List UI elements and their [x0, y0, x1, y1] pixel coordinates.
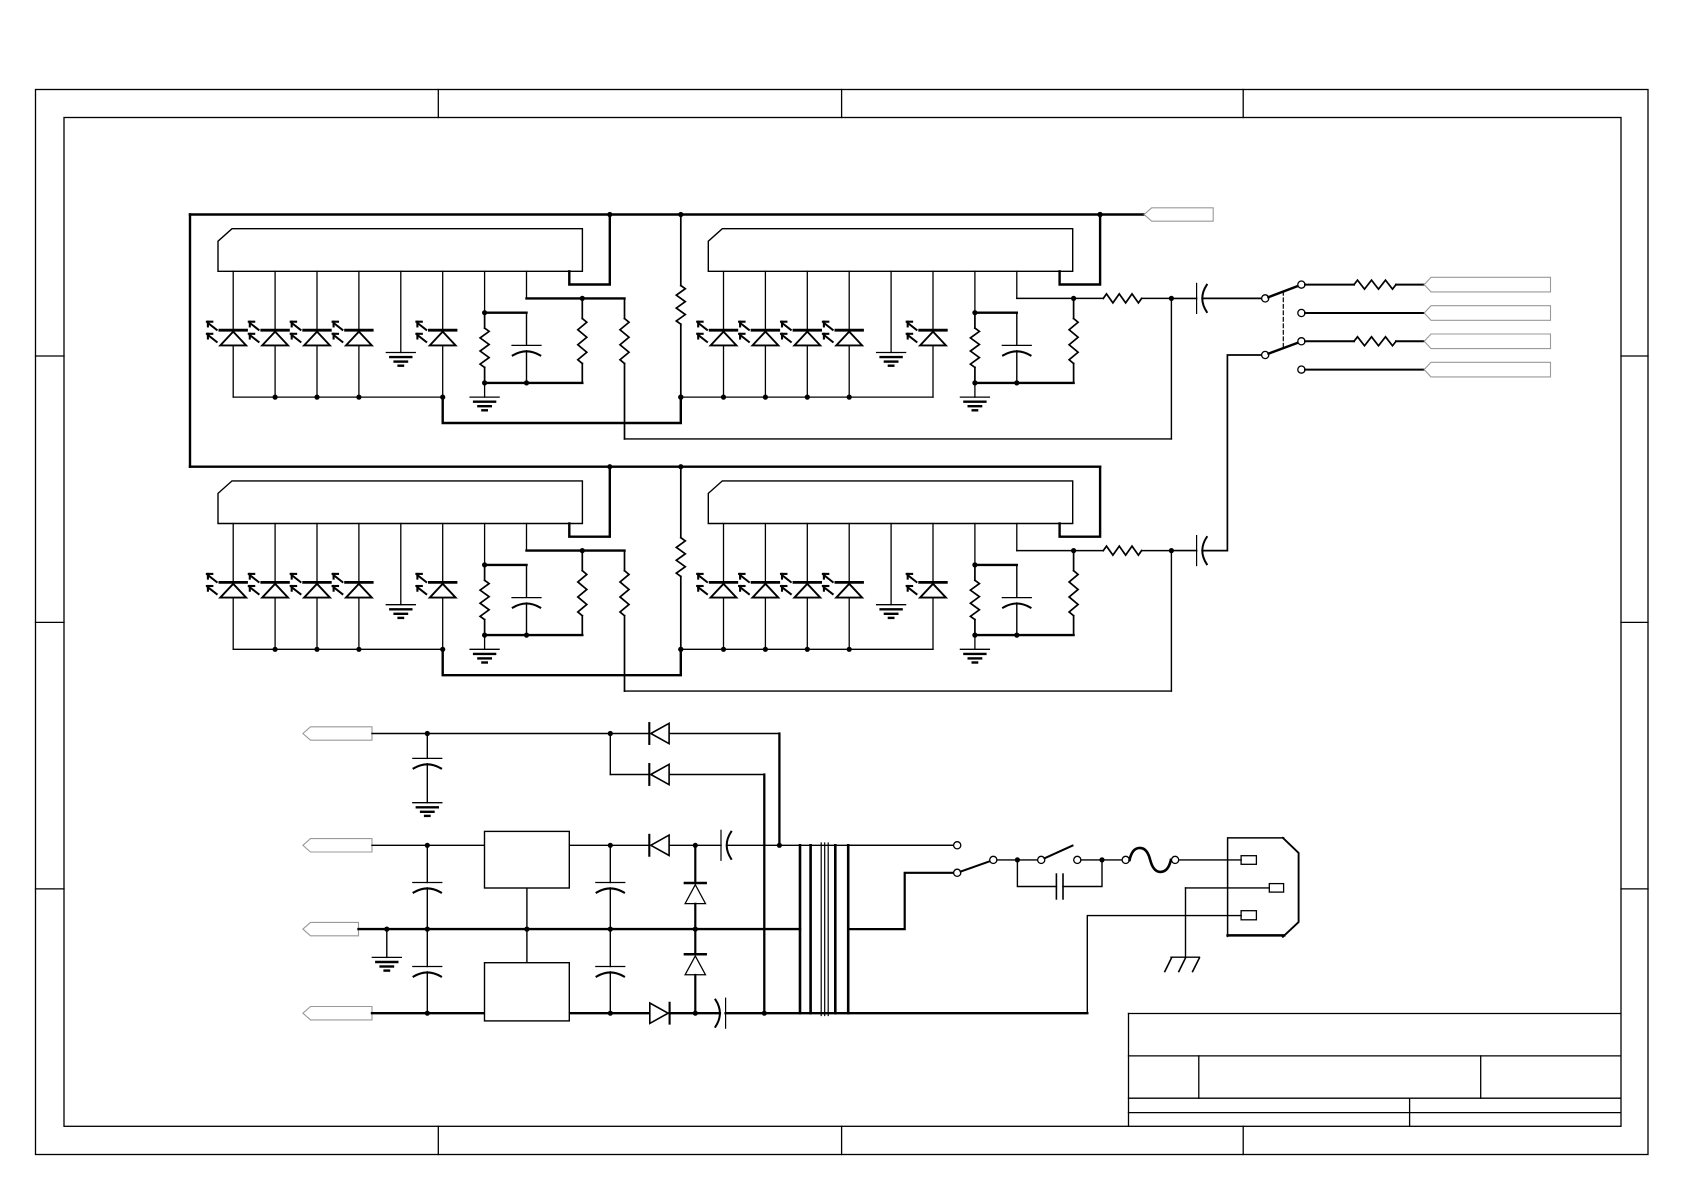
- wire switch to fuse: [1081, 859, 1122, 861]
- wire photodiode D215 anode: [442, 598, 444, 650]
- capacitor C11 (B-C filter): [426, 845, 428, 882]
- photodiode D125: [920, 329, 947, 332]
- ground at pin5 block 2 row1: [877, 352, 906, 354]
- title block outline: [1129, 1013, 1621, 1015]
- wire photodiode D122 anode: [764, 346, 766, 398]
- wire pin5 U2B to ground: [890, 524, 892, 605]
- wire C2out to switch pole2: [1202, 355, 1261, 551]
- resistor R21b (shunt): [581, 551, 583, 571]
- net label flag supply V1: [303, 727, 372, 740]
- wire pin2 U2A: [274, 524, 276, 582]
- junction supply step block2 row1: [1098, 212, 1103, 217]
- wire pin4 U2A: [358, 524, 360, 582]
- chassis ground: [1171, 956, 1199, 958]
- photodiode D214: [346, 581, 373, 584]
- capacitor C14 (C-D filter 2): [609, 929, 611, 966]
- wire throw3 to R32: [1305, 340, 1354, 342]
- junction dots bus block1 row1: [273, 395, 278, 400]
- junction rail B cap column: [425, 843, 430, 848]
- photodiode D111: [220, 329, 247, 332]
- transformer T1 core: [820, 843, 822, 1016]
- resistor R12b (shunt): [1073, 298, 1075, 318]
- transformer T1 primary winding: [834, 845, 837, 1013]
- voltage selector lever: [961, 861, 991, 871]
- wire photodiode D115 anode: [442, 346, 444, 398]
- junction R2m top: [678, 464, 683, 469]
- wire supply rail C (0V): [359, 928, 801, 930]
- junction dots bus block1 row2: [273, 647, 278, 652]
- junction sum node row1: [1169, 296, 1174, 301]
- wire RC common to ground block1 row2: [485, 634, 583, 636]
- photodiode D211: [220, 581, 247, 584]
- junction snubber cap left: [1015, 857, 1020, 862]
- switch S1 pole1 lever: [1268, 286, 1298, 297]
- title block row line 2: [1129, 1097, 1621, 1099]
- junction rail B diode column: [608, 843, 613, 848]
- net label flag supply 0V: [303, 922, 359, 935]
- ground RC network block1 row2: [484, 635, 486, 649]
- wire photodiode D112 anode: [274, 346, 276, 398]
- capacitor C2out (output coupling): [1171, 550, 1196, 552]
- wire D11 branch: [609, 734, 611, 775]
- wire D11 anode to transformer bottom: [670, 774, 764, 776]
- junction rail B transformer tap: [777, 843, 782, 848]
- AC inlet neutral pin: [1241, 911, 1256, 920]
- wire IC supply step block2 row1: [1060, 215, 1101, 285]
- wire V+ link between rows: [189, 215, 191, 467]
- wire pin8 block2 row1: [1016, 271, 1018, 298]
- wire inlet earth pin to chassis: [1186, 887, 1270, 889]
- wire pin7 block1 row2: [484, 524, 486, 565]
- junction rail D cap column: [425, 1011, 430, 1016]
- wire primary top to selector: [848, 844, 953, 846]
- junction dots bus block2 row2: [678, 647, 683, 652]
- resistor R21a (pin7 load): [484, 565, 486, 580]
- photodiode D212: [262, 581, 289, 584]
- wire R21c to sum node row2: [625, 690, 1172, 692]
- junction pin7 block2 row2: [972, 562, 977, 567]
- power switch S2 lever (open): [1045, 846, 1073, 859]
- photodiode D224: [836, 581, 863, 584]
- connector flag output 1: [1424, 277, 1550, 292]
- photodiode D221: [710, 581, 737, 584]
- wire pin8 output node block2 row2: [1017, 550, 1104, 552]
- junction supply step block1 row1: [607, 212, 612, 217]
- switch S1 throw terminal 1: [1298, 281, 1305, 288]
- wire pin2 U2B: [764, 524, 766, 582]
- capacitor C10 (rail A filter): [426, 734, 428, 759]
- junction pin7 block1 row1: [482, 310, 487, 315]
- net label flag supply V2+: [303, 839, 372, 852]
- wire photodiode D214 anode: [358, 598, 360, 650]
- diode D15 (clamp C-D): [694, 929, 696, 954]
- title block divider 2: [1480, 1056, 1482, 1098]
- photodiode D225: [920, 581, 947, 584]
- switch S1 gang link (dashed): [1282, 292, 1284, 348]
- photodiode D222: [752, 581, 779, 584]
- ground at pin5 block 1 row1: [386, 352, 415, 354]
- switch S1 pole1 terminal: [1262, 295, 1269, 302]
- IC U1B sensor array block 2: [708, 229, 1072, 272]
- wire pin6 U1A: [442, 271, 444, 329]
- regulator U5 (positive): [526, 888, 528, 929]
- title block row line 1: [1129, 1055, 1621, 1057]
- junction rail D transformer tap: [762, 1011, 767, 1016]
- ground RC network block2 row2: [974, 635, 976, 649]
- junction R21b top: [580, 548, 585, 553]
- wire pin5 U2A to ground: [400, 524, 402, 605]
- wire R22c to sum node: [1142, 550, 1172, 552]
- ground rail A filter: [413, 802, 442, 804]
- transformer T1 secondary winding: [799, 845, 802, 1013]
- junction pin7 block1 row2: [482, 562, 487, 567]
- resistor R31 (output series): [1354, 280, 1396, 289]
- wire pin7 node to cap block1 row1: [485, 312, 527, 314]
- wire pin5 U1A to ground: [400, 271, 402, 352]
- wire pin8 block1 row2: [526, 524, 528, 551]
- wire throw1 to R31: [1305, 284, 1354, 286]
- wire pin8 block2 row2: [1016, 524, 1018, 551]
- photodiode D223: [794, 581, 821, 584]
- ground rail C: [386, 929, 388, 957]
- ground at pin5 block 2 row2: [877, 604, 906, 606]
- diode D14 (clamp B-C): [694, 845, 696, 883]
- wire pin7 block2 row2: [974, 524, 976, 565]
- wire cathode bus block2 row2: [681, 648, 933, 650]
- capacitor C11 (pin7 filter): [526, 313, 528, 345]
- resistor R22c (series to sum node): [1103, 546, 1141, 555]
- wire rail D cap to transformer: [726, 1012, 1088, 1014]
- photodiode D122: [752, 329, 779, 332]
- wire supply rail B: [372, 844, 649, 846]
- title block divider 1: [1198, 1056, 1200, 1098]
- capacitor C15 (rail B coupling): [720, 830, 722, 860]
- junction dots RC bottom block1 row1: [482, 380, 487, 385]
- border zone ticks top: [437, 90, 439, 118]
- photodiode D112: [262, 329, 289, 332]
- wire photodiode D114 anode: [358, 346, 360, 398]
- IC U1A sensor array block 1: [218, 229, 582, 272]
- border zone ticks right: [1621, 355, 1648, 357]
- wire photodiode D211 anode: [232, 598, 234, 650]
- wire photodiode D113 anode: [316, 346, 318, 398]
- wire cathode bus block1 row1: [233, 396, 443, 398]
- capacitor C1out (output coupling): [1171, 297, 1196, 299]
- ground RC network block1 row1: [484, 383, 486, 397]
- photodiode D123: [794, 329, 821, 332]
- regulator U6 (negative): [526, 929, 528, 963]
- wire V+ rail row1: [190, 213, 1100, 215]
- wire pin1 U2A: [232, 524, 234, 582]
- junction dots RC bottom block2 row1: [972, 380, 977, 385]
- resistor R2m (bus pull-up): [680, 467, 682, 538]
- voltage selector common terminal: [990, 856, 997, 863]
- wire pin6 U2B: [932, 524, 934, 582]
- wire photodiode D121 anode: [723, 346, 725, 398]
- diode D11 (rectifier): [648, 764, 650, 785]
- switch S1 throw terminal 4: [1298, 366, 1305, 373]
- wire throw2 to connector flag 2: [1305, 312, 1424, 314]
- capacitor C17 (snubber across switch): [1017, 860, 1056, 887]
- wire rail B cap to transformer: [727, 844, 954, 846]
- wire pin3 U2B: [806, 524, 808, 582]
- wire primary tap: [848, 873, 953, 929]
- wire pin5 U1B to ground: [890, 271, 892, 352]
- wire photodiode D123 anode: [806, 346, 808, 398]
- wire IC supply step block2 row2: [1060, 467, 1101, 537]
- wire V+ rail row2: [190, 466, 1100, 468]
- junction rail A diode branch: [608, 731, 613, 736]
- resistor R22a (pin7 load): [974, 565, 976, 580]
- wire photodiode D125 anode: [932, 346, 934, 398]
- junction supply step block1 row2: [607, 464, 612, 469]
- wire rail B after diode: [670, 844, 721, 846]
- fuse F1: [1130, 848, 1171, 872]
- diode D12 (rectifier): [648, 835, 650, 856]
- capacitor C13 (B-C filter 2): [609, 845, 611, 882]
- capacitor C16 (rail D coupling): [725, 998, 727, 1028]
- wire photodiode D111 anode: [232, 346, 234, 398]
- wire pin8 output node block1 row2: [527, 549, 625, 551]
- wire pin7 node to cap block2 row2: [975, 564, 1017, 566]
- AC inlet J5 housing: [1228, 838, 1284, 937]
- wire V+ rail to net flag: [1100, 213, 1144, 215]
- junction R12b top: [1071, 296, 1076, 301]
- diode D10 (rectifier): [648, 723, 650, 744]
- wire IC supply step block1 row1: [569, 215, 610, 285]
- connector flag output 2: [1424, 306, 1550, 321]
- AC inlet live pin: [1241, 856, 1256, 865]
- wire RC common to ground block1 row1: [485, 382, 583, 384]
- wire pin4 U1B: [848, 271, 850, 329]
- power switch S2 terminal A: [1038, 856, 1045, 863]
- capacitor C22 (pin7 filter): [1016, 565, 1018, 597]
- junction rail C zener column: [693, 927, 698, 932]
- wire pin4 U1A: [358, 271, 360, 329]
- wire pin6 U2A: [442, 524, 444, 582]
- switch S1 throw terminal 3: [1298, 338, 1305, 345]
- border zone ticks left: [36, 355, 65, 357]
- wire pin7 block2 row1: [974, 271, 976, 312]
- capacitor C12 (C-D filter): [426, 929, 428, 966]
- photodiode D113: [304, 329, 331, 332]
- ground at pin5 block 1 row2: [386, 604, 415, 606]
- junction R2m bottom: [678, 647, 683, 652]
- switch S1 throw terminal 2: [1298, 309, 1305, 316]
- IC U2A sensor array block 1: [218, 481, 582, 524]
- wire R11c to sum node row1: [625, 438, 1172, 440]
- photodiode D124: [836, 329, 863, 332]
- junction dots bus block2 row1: [678, 395, 683, 400]
- photodiode D115: [429, 329, 456, 332]
- junction pin7 block2 row1: [972, 310, 977, 315]
- wire selector to power switch: [997, 859, 1038, 861]
- wire bus link row2: [443, 649, 681, 675]
- wire pin8 output node block2 row1: [1017, 297, 1104, 299]
- junction R1m bottom: [678, 395, 683, 400]
- wire throw4 to connector flag 4: [1305, 369, 1424, 371]
- wire photodiode D212 anode: [274, 598, 276, 650]
- fuse F1 terminal right: [1172, 856, 1179, 863]
- border inner frame: [64, 118, 1621, 1127]
- wire cathode bus block1 row2: [233, 648, 443, 650]
- junction sum node row2: [1169, 548, 1174, 553]
- wire photodiode D224 anode: [848, 598, 850, 650]
- wire photodiode D213 anode: [316, 598, 318, 650]
- wire rail D after diode: [670, 1012, 720, 1014]
- wire fuse to inlet live pin: [1179, 859, 1241, 861]
- resistor R1m (bus pull-up): [680, 215, 682, 286]
- junction R22b top: [1071, 548, 1076, 553]
- junction rail C cap column 1: [425, 927, 430, 932]
- junction rail A cap: [425, 731, 430, 736]
- wire supply rail D: [372, 1012, 649, 1014]
- AC inlet earth pin: [1269, 884, 1283, 893]
- wire photodiode D223 anode: [806, 598, 808, 650]
- junction rail B zener column: [693, 843, 698, 848]
- wire photodiode D222 anode: [764, 598, 766, 650]
- net label flag V+ row1: [1144, 208, 1213, 221]
- power switch S2 terminal B: [1074, 856, 1081, 863]
- wire C1out to switch pole1: [1202, 297, 1261, 299]
- wire cathode bus block2 row1: [681, 396, 933, 398]
- diode D13 (rectifier): [669, 1003, 671, 1024]
- junction rail D diode column: [608, 1011, 613, 1016]
- connector flag output 4: [1424, 362, 1550, 377]
- switch S1 pole2 terminal: [1262, 351, 1269, 358]
- fuse F1 terminal left: [1122, 856, 1129, 863]
- wire D10 anode to transformer top: [670, 733, 779, 735]
- photodiode D215: [429, 581, 456, 584]
- resistor R22b (shunt): [1073, 551, 1075, 571]
- junction rail C cap column 2: [608, 927, 613, 932]
- resistor R32 (output series): [1354, 337, 1396, 346]
- wire pin7 block1 row1: [484, 271, 486, 312]
- wire pin2 U1B: [764, 271, 766, 329]
- switch S1 pole2 lever: [1269, 343, 1299, 354]
- photodiode D213: [304, 581, 331, 584]
- wire rail D to inlet neutral pin: [1087, 916, 1241, 1014]
- wire photodiode D225 anode: [932, 598, 934, 650]
- junction R11b top: [580, 296, 585, 301]
- wire pin8 block1 row1: [526, 271, 528, 298]
- wire pin6 U1B: [932, 271, 934, 329]
- wire R12c to sum node: [1142, 297, 1172, 299]
- voltage selector terminal tap: [954, 869, 961, 876]
- junction rail D zener column: [693, 1011, 698, 1016]
- capacitor C12 (pin7 filter): [1016, 313, 1018, 345]
- wire pin3 U2A: [316, 524, 318, 582]
- wire RC common to ground block2 row2: [975, 634, 1074, 636]
- wire photodiode D221 anode: [723, 598, 725, 650]
- ground RC network block2 row1: [974, 383, 976, 397]
- photodiode D114: [346, 329, 373, 332]
- resistor R11a (pin7 load): [484, 313, 486, 328]
- wire pin7 node to cap block1 row2: [485, 564, 527, 566]
- junction V+ rail to flag row1: [1098, 212, 1103, 217]
- junction rail C ground stem: [384, 927, 389, 932]
- wire pin1 U1A: [232, 271, 234, 329]
- resistor R11b (shunt): [581, 298, 583, 318]
- voltage selector terminal full: [954, 842, 961, 849]
- junction snubber cap right: [1099, 857, 1104, 862]
- junction dots RC bottom block1 row2: [482, 633, 487, 638]
- wire R31 to connector flag 1: [1396, 284, 1424, 286]
- wire IC supply step block1 row2: [569, 467, 610, 537]
- wire R32 to connector flag 3: [1396, 340, 1424, 342]
- wire pin7 node to cap block2 row1: [975, 312, 1017, 314]
- border zone ticks bottom: [437, 1126, 439, 1154]
- wire pin8 output node block1 row1: [527, 297, 625, 299]
- wire pin1 U1B: [723, 271, 725, 329]
- wire pin3 U1A: [316, 271, 318, 329]
- resistor R21c (series to sum node): [624, 551, 626, 571]
- wire bus link row1: [443, 397, 681, 423]
- title block divider 3: [1409, 1098, 1411, 1126]
- wire pin1 U2B: [723, 524, 725, 582]
- junction R1m top: [678, 212, 683, 217]
- resistor R12c (series to sum node): [1103, 294, 1141, 303]
- junction dots RC bottom block2 row2: [972, 633, 977, 638]
- junction rail C regulators: [524, 927, 529, 932]
- wire pin2 U1A: [274, 271, 276, 329]
- wire photodiode D124 anode: [848, 346, 850, 398]
- net label flag supply V2-: [303, 1007, 372, 1020]
- IC U2B sensor array block 2: [708, 481, 1072, 524]
- wire RC common to ground block2 row1: [975, 382, 1074, 384]
- connector flag output 3: [1424, 334, 1550, 349]
- wire pin3 U1B: [806, 271, 808, 329]
- photodiode D121: [710, 329, 737, 332]
- capacitor C21 (pin7 filter): [526, 565, 528, 597]
- resistor R11c (series to sum node): [624, 298, 626, 318]
- wire supply rail A: [372, 733, 649, 735]
- wire pin4 U2B: [848, 524, 850, 582]
- title block row line 3: [1129, 1112, 1621, 1114]
- resistor R12a (pin7 load): [974, 313, 976, 328]
